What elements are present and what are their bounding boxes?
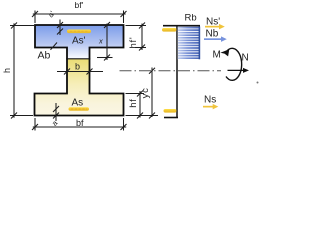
dimension h (left) [10,23,34,119]
svg-text:h: h [2,68,12,73]
svg-text:hf': hf' [128,37,139,49]
N axial arrow [228,69,245,71]
section outline [35,25,124,116]
dimension a (bottom small) [53,103,59,121]
svg-text:bf: bf [76,118,84,128]
rebar As' (top) [67,30,91,34]
Rs force bar (yellow, at As level) [164,109,177,113]
dimension a' (top small) [57,20,63,36]
dimension x (neutral axis depth) [97,22,113,61]
dimension b (web) [57,69,103,75]
dimension hf' (right of top flange) [126,23,147,51]
svg-text:bf': bf' [75,0,84,10]
svg-text:yc: yc [140,87,151,98]
svg-text:Nb: Nb [206,29,219,40]
svg-text:a: a [50,118,60,128]
rebar As (bottom) [69,107,90,111]
Rs' force bar (yellow, at As' level) [162,28,177,32]
svg-text:Rb: Rb [185,13,197,24]
top bar [163,25,200,27]
bottom bar [164,117,178,119]
svg-text:As': As' [72,36,86,47]
svg-text:Ns: Ns [204,95,216,106]
neutral axis line across web [66,58,90,60]
svg-text:As: As [72,98,84,109]
svg-text:x: x [98,37,103,46]
tension zone fill (web below neutral axis + bottom flange) [35,59,124,116]
right diagram: axis line [176,26,178,118]
stray dot [257,82,259,84]
svg-text:hf: hf [128,98,139,107]
svg-text:N: N [242,53,249,64]
svg-text:a': a' [46,9,57,20]
compression zone fill (top flange + web above neutral axis) [35,25,124,59]
centerline (dash-dot) [120,70,222,72]
moment arc with arrowhead [226,48,242,80]
svg-text:M: M [213,50,221,61]
dimension bf' (top) [32,11,127,24]
svg-text:Ab: Ab [38,50,51,62]
svg-text:b: b [75,62,80,72]
dimension yc (right, centroid to bottom) [149,68,155,119]
Rb stress block (striped) [178,27,200,60]
dimension bf (bottom) [32,118,127,131]
dimension hf (right of bottom flange) [126,91,159,119]
